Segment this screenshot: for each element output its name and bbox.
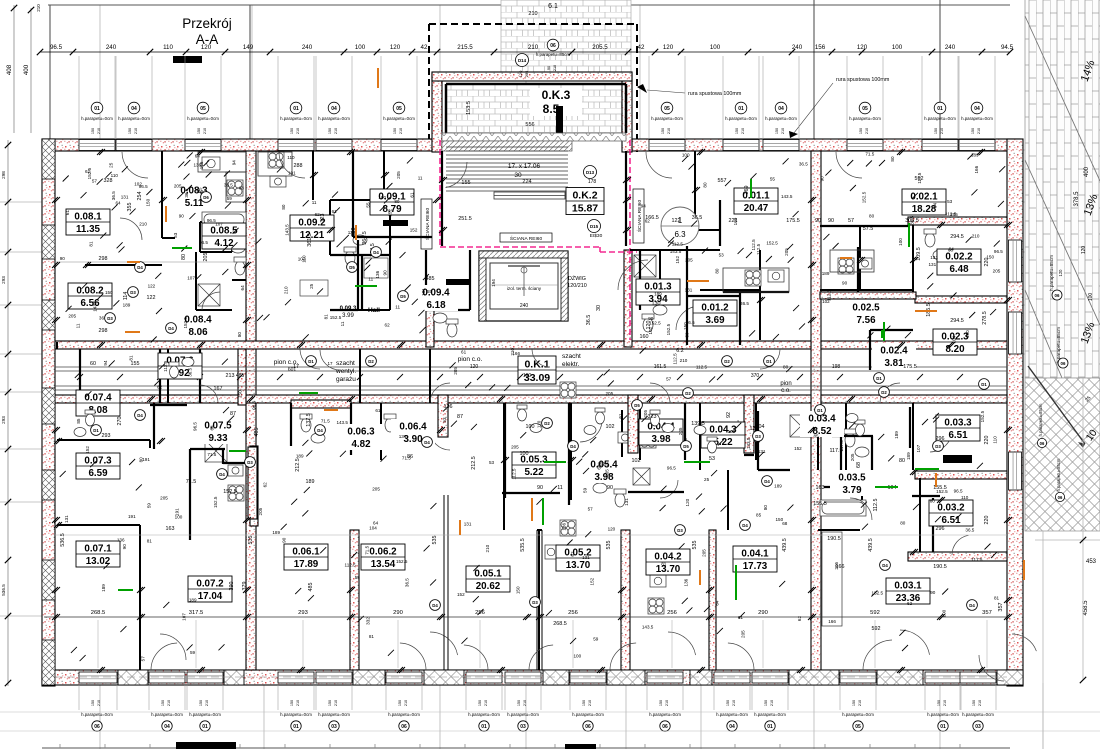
svg-text:104: 104	[756, 424, 765, 430]
svg-text:h.parapetu=0cm: h.parapetu=0cm	[280, 712, 312, 717]
corridor dim slashes	[77, 374, 963, 380]
svg-text:11: 11	[418, 176, 423, 181]
svg-text:150: 150	[105, 290, 113, 295]
svg-text:191: 191	[128, 514, 136, 519]
svg-text:120: 120	[1081, 246, 1087, 255]
svg-text:01: 01	[738, 106, 744, 112]
svg-text:122: 122	[148, 284, 156, 289]
room 0.04.1 label	[733, 546, 777, 572]
svg-text:81: 81	[89, 241, 94, 247]
svg-text:11: 11	[75, 323, 80, 328]
svg-text:D3: D3	[677, 528, 683, 533]
svg-text:120: 120	[201, 44, 212, 51]
svg-text:112.5: 112.5	[756, 243, 761, 255]
svg-text:D4: D4	[570, 444, 576, 449]
room 0.04.3 label	[701, 422, 745, 448]
svg-text:D2: D2	[881, 390, 887, 395]
svg-text:150: 150	[852, 700, 856, 706]
svg-text:485: 485	[236, 373, 245, 379]
svg-text:210: 210	[770, 700, 774, 706]
svg-text:17.73: 17.73	[743, 561, 768, 572]
left edge dimension line	[1, 140, 11, 686]
svg-text:03: 03	[331, 724, 337, 730]
svg-text:0.06.1: 0.06.1	[292, 547, 320, 558]
svg-text:535: 535	[432, 536, 438, 545]
svg-text:90: 90	[547, 66, 551, 70]
svg-text:364.5: 364.5	[362, 231, 368, 245]
extension lines below bottom wall	[79, 685, 996, 710]
small room 0.09.3	[340, 306, 380, 319]
svg-text:150: 150	[735, 128, 739, 134]
svg-text:131: 131	[121, 195, 129, 200]
svg-text:05: 05	[862, 106, 868, 112]
svg-text:81: 81	[994, 596, 1000, 601]
svg-text:D4: D4	[969, 603, 975, 608]
svg-text:04: 04	[729, 724, 735, 730]
svg-text:205: 205	[784, 248, 789, 256]
stair tower outer walls	[432, 73, 442, 152]
svg-text:136: 136	[375, 270, 380, 278]
top border line	[48, 4, 1010, 6]
room 0.08.2 label	[68, 283, 112, 309]
svg-text:D4: D4	[882, 563, 888, 568]
room 0.02.3 label	[933, 329, 977, 355]
svg-text:36.5: 36.5	[404, 578, 409, 587]
svg-text:210: 210	[865, 128, 869, 134]
rura spustowa labels	[637, 77, 890, 138]
svg-text:11.35: 11.35	[76, 224, 101, 235]
svg-text:205: 205	[160, 496, 168, 501]
room 0.01.2 label	[693, 300, 737, 326]
svg-text:D2: D2	[724, 359, 730, 364]
thin walls lower right	[622, 403, 862, 530]
svg-text:189: 189	[654, 291, 662, 296]
svg-text:D5: D5	[349, 265, 355, 270]
svg-text:136: 136	[562, 523, 567, 531]
svg-text:143.5: 143.5	[746, 437, 751, 449]
svg-text:136: 136	[684, 578, 689, 586]
svg-text:535.5: 535.5	[520, 538, 526, 552]
room 0.04.2 label	[646, 549, 690, 575]
svg-text:0.03.2: 0.03.2	[937, 503, 965, 514]
svg-text:131: 131	[582, 555, 590, 560]
svg-text:293: 293	[1, 416, 6, 424]
svg-text:189: 189	[774, 483, 782, 488]
svg-text:17. x 17.06: 17. x 17.06	[508, 163, 541, 170]
shower 0.05.4	[633, 468, 650, 485]
svg-text:71.5: 71.5	[207, 452, 216, 457]
elevator shaft	[479, 251, 568, 321]
svg-text:h.parapetu=0cm: h.parapetu=0cm	[81, 712, 113, 717]
svg-text:61: 61	[332, 209, 338, 214]
svg-text:20.47: 20.47	[744, 203, 769, 214]
svg-text:150: 150	[197, 128, 201, 134]
speckled wall 0.02 inner	[820, 292, 916, 299]
svg-text:6.59: 6.59	[88, 468, 108, 479]
svg-text:0.03.1: 0.03.1	[894, 581, 922, 592]
svg-text:11: 11	[312, 200, 317, 205]
svg-text:55: 55	[770, 177, 776, 182]
svg-text:01: 01	[94, 106, 100, 112]
svg-text:06: 06	[94, 724, 100, 730]
svg-text:D5: D5	[634, 403, 640, 408]
svg-text:pion: pion	[780, 381, 791, 387]
svg-text:80: 80	[930, 499, 936, 504]
svg-text:D14: D14	[518, 58, 527, 63]
svg-text:11: 11	[557, 485, 563, 491]
svg-text:c.o.: c.o.	[781, 388, 791, 394]
svg-text:94.5: 94.5	[1001, 44, 1014, 51]
svg-text:86: 86	[407, 454, 413, 460]
tower window circle O6	[536, 39, 571, 71]
svg-text:194: 194	[491, 279, 496, 287]
svg-text:256: 256	[667, 610, 677, 616]
svg-text:0.08.2: 0.08.2	[76, 286, 104, 297]
svg-text:120: 120	[857, 44, 868, 51]
svg-text:64: 64	[714, 600, 719, 606]
grid bubble 1	[661, 207, 699, 245]
svg-text:240: 240	[520, 303, 529, 309]
svg-text:h.parapetu=0cm: h.parapetu=0cm	[716, 712, 748, 717]
svg-text:120: 120	[1058, 269, 1063, 277]
exterior wall left	[42, 139, 55, 686]
svg-text:11: 11	[395, 305, 400, 310]
svg-text:h.parapetu=0cm: h.parapetu=0cm	[849, 116, 881, 121]
svg-text:210: 210	[943, 700, 947, 706]
svg-text:131: 131	[624, 498, 629, 506]
windows bottom wall	[79, 672, 996, 683]
svg-text:80: 80	[715, 268, 720, 274]
window type circles top row	[81, 102, 993, 134]
top dimension line	[37, 49, 1013, 55]
svg-text:152.5: 152.5	[862, 191, 867, 203]
svg-text:100: 100	[898, 238, 903, 246]
svg-text:100: 100	[710, 44, 721, 51]
svg-text:53: 53	[947, 199, 953, 204]
svg-text:17: 17	[293, 364, 299, 370]
svg-text:143.5: 143.5	[781, 194, 793, 199]
svg-text:71.5: 71.5	[865, 151, 874, 156]
svg-text:240: 240	[792, 44, 803, 51]
svg-text:h.parapetu=0cm: h.parapetu=0cm	[280, 116, 312, 121]
svg-text:149: 149	[243, 44, 254, 51]
svg-text:213: 213	[226, 373, 235, 379]
orange accent marks	[125, 68, 1024, 585]
svg-text:378.5: 378.5	[1074, 191, 1080, 207]
svg-text:D5: D5	[683, 444, 689, 449]
svg-text:189: 189	[894, 431, 899, 439]
svg-text:150: 150	[290, 128, 294, 134]
svg-text:166: 166	[974, 165, 979, 173]
corridor floor lines	[55, 367, 1007, 390]
svg-text:96.5: 96.5	[252, 400, 257, 409]
svg-text:h.parapetu=85cm: h.parapetu=85cm	[1056, 458, 1061, 491]
svg-text:04: 04	[974, 106, 980, 112]
room 0.07.6 label	[158, 353, 202, 379]
SCIANA REI60 labels	[421, 189, 644, 249]
svg-text:357: 357	[998, 602, 1004, 611]
svg-text:90: 90	[815, 218, 821, 224]
door swing arcs	[120, 152, 1036, 660]
svg-text:80: 80	[869, 213, 875, 218]
bath cluster 0.08	[196, 205, 760, 340]
svg-text:h.parapetu=0cm: h.parapetu=0cm	[187, 116, 219, 121]
svg-text:485: 485	[426, 276, 435, 282]
svg-text:53: 53	[442, 417, 447, 423]
svg-text:152: 152	[675, 256, 680, 264]
svg-text:h.parapetu=0cm: h.parapetu=0cm	[151, 712, 183, 717]
svg-text:01: 01	[940, 724, 946, 730]
svg-text:D5: D5	[400, 294, 406, 299]
svg-text:D4: D4	[137, 265, 143, 270]
svg-text:100: 100	[728, 429, 736, 434]
svg-text:485: 485	[254, 428, 260, 437]
svg-text:5.22: 5.22	[524, 467, 544, 478]
svg-text:131: 131	[930, 255, 938, 260]
svg-text:143.5: 143.5	[336, 420, 348, 425]
svg-text:143.5: 143.5	[670, 249, 682, 254]
svg-text:96.5: 96.5	[192, 422, 197, 431]
svg-text:6.1: 6.1	[548, 3, 558, 10]
svg-text:152.5: 152.5	[223, 489, 237, 495]
svg-text:rura spustowa 100mm: rura spustowa 100mm	[688, 91, 742, 97]
svg-text:150: 150	[199, 700, 203, 706]
svg-text:30: 30	[596, 305, 602, 311]
svg-text:156: 156	[815, 44, 826, 51]
svg-text:210: 210	[553, 65, 557, 71]
svg-text:293: 293	[102, 433, 111, 439]
svg-text:400: 400	[23, 64, 30, 75]
thin interior walls upper half	[57, 151, 920, 670]
svg-text:224: 224	[522, 179, 531, 185]
svg-text:0.03.3: 0.03.3	[944, 418, 972, 429]
ramp slope labels	[1049, 58, 1100, 368]
svg-text:0.K.1: 0.K.1	[524, 359, 549, 371]
svg-text:458.5: 458.5	[1083, 600, 1089, 616]
svg-text:210: 210	[972, 234, 980, 239]
svg-text:D4: D4	[137, 413, 143, 418]
svg-text:150: 150	[775, 517, 783, 522]
svg-text:h.parapetu=85cm: h.parapetu=85cm	[536, 52, 571, 57]
svg-text:3.81: 3.81	[884, 358, 904, 369]
svg-text:205: 205	[950, 212, 958, 217]
svg-text:D1: D1	[876, 376, 882, 381]
svg-text:131: 131	[758, 449, 766, 454]
svg-text:60: 60	[90, 361, 96, 367]
svg-text:400: 400	[1084, 166, 1090, 177]
svg-text:13.54: 13.54	[371, 559, 396, 570]
svg-text:94: 94	[231, 160, 236, 166]
svg-text:150: 150	[393, 128, 397, 134]
svg-text:150: 150	[661, 128, 665, 134]
svg-text:06: 06	[1061, 361, 1066, 366]
svg-text:205: 205	[678, 427, 683, 435]
room 0.K.2 label	[566, 188, 604, 215]
svg-text:210: 210	[528, 11, 537, 17]
svg-text:85: 85	[756, 513, 762, 518]
svg-text:205: 205	[702, 549, 707, 557]
svg-text:535: 535	[248, 536, 254, 545]
svg-text:59: 59	[147, 503, 152, 509]
svg-text:05: 05	[200, 106, 206, 112]
svg-text:15.87: 15.87	[572, 203, 598, 215]
plumbing double lines lower rooms	[444, 495, 542, 670]
tower hatch strip	[442, 141, 572, 151]
D13 circle	[584, 166, 597, 179]
room 0.08.4 label	[176, 312, 220, 338]
right side dims lower	[998, 378, 1100, 749]
small speckled wall pieces	[438, 395, 448, 437]
svg-text:210: 210	[940, 128, 944, 134]
svg-text:100: 100	[1088, 293, 1094, 302]
svg-text:100: 100	[520, 451, 529, 457]
svg-text:256: 256	[475, 610, 485, 616]
svg-text:96.5: 96.5	[50, 44, 63, 51]
room 0.05.3 label	[512, 452, 556, 478]
svg-text:293: 293	[1, 276, 6, 284]
svg-text:81: 81	[129, 355, 134, 361]
svg-text:90: 90	[930, 590, 936, 595]
svg-text:0.08.1: 0.08.1	[74, 212, 102, 223]
wall 0.02.2/0.02.3	[915, 296, 1007, 303]
svg-text:100: 100	[573, 653, 581, 658]
svg-text:120: 120	[685, 498, 690, 506]
svg-text:61: 61	[375, 408, 381, 413]
stair room 0.K.2 walls	[442, 151, 720, 246]
svg-text:150: 150	[91, 128, 95, 134]
svg-text:122: 122	[147, 295, 156, 301]
svg-text:01: 01	[293, 724, 299, 730]
svg-text:D3: D3	[107, 316, 113, 321]
svg-text:189: 189	[906, 452, 911, 460]
windows right wall	[1009, 240, 1022, 490]
svg-text:h.parapetu=85cm: h.parapetu=85cm	[1056, 327, 1061, 363]
upper rooms dimension texts	[60, 163, 990, 632]
svg-text:175.5: 175.5	[903, 364, 917, 370]
svg-text:361.5: 361.5	[307, 233, 313, 247]
svg-text:161.5: 161.5	[654, 364, 667, 370]
svg-text:100: 100	[378, 195, 386, 200]
room 0.02.1 label	[902, 189, 946, 215]
svg-text:136: 136	[117, 537, 125, 542]
svg-text:251.5: 251.5	[458, 216, 472, 222]
svg-text:220: 220	[984, 436, 990, 445]
extension lines above top wall	[79, 56, 995, 139]
lower rooms dimension line	[44, 610, 1012, 620]
bottom boundary lines	[0, 712, 1100, 748]
svg-text:D1: D1	[308, 359, 314, 364]
svg-text:189: 189	[101, 584, 106, 592]
svg-text:298: 298	[1, 171, 6, 179]
room 0.06.3 label	[339, 424, 383, 450]
svg-text:61: 61	[410, 192, 415, 198]
svg-text:h.parapetu=85cm: h.parapetu=85cm	[1049, 255, 1054, 291]
svg-text:42: 42	[421, 44, 428, 51]
svg-text:90: 90	[60, 256, 66, 261]
svg-text:210: 210	[334, 128, 338, 134]
svg-text:357: 357	[982, 610, 992, 616]
svg-text:131: 131	[64, 515, 69, 523]
svg-text:210: 210	[399, 128, 403, 134]
room interior extension verticals	[98, 620, 987, 668]
svg-text:150: 150	[582, 700, 586, 706]
svg-text:205: 205	[741, 630, 746, 638]
svg-text:64: 64	[240, 285, 245, 291]
svg-text:6.48: 6.48	[949, 264, 969, 275]
svg-text:D3: D3	[935, 444, 941, 449]
svg-text:189: 189	[822, 271, 830, 276]
door type circles	[91, 192, 990, 611]
svg-text:36.5: 36.5	[184, 188, 189, 197]
svg-text:120: 120	[663, 44, 674, 51]
svg-text:61: 61	[461, 349, 467, 354]
kitchen counter 0.02.1	[830, 250, 874, 272]
svg-text:150: 150	[398, 700, 402, 706]
extra bath fixtures	[74, 358, 865, 454]
kitchen counter 0.09.2	[258, 152, 292, 176]
room 0.09.1 label	[370, 189, 414, 215]
svg-text:150: 150	[764, 700, 768, 706]
svg-text:11: 11	[368, 277, 373, 282]
room 0.06.4 label	[391, 419, 435, 445]
svg-text:152.5: 152.5	[872, 591, 884, 596]
svg-text:150: 150	[91, 700, 95, 706]
svg-text:112.5: 112.5	[672, 353, 677, 365]
svg-text:150: 150	[128, 128, 132, 134]
svg-text:100: 100	[682, 153, 690, 158]
svg-text:153.5: 153.5	[466, 101, 472, 115]
svg-text:112.5: 112.5	[672, 242, 684, 247]
kitchen counter 0.01.1	[723, 268, 789, 292]
svg-text:h.parapetu=0cm: h.parapetu=0cm	[765, 116, 797, 121]
svg-text:D3: D3	[532, 600, 538, 605]
svg-text:323: 323	[320, 214, 326, 223]
svg-text:189: 189	[123, 302, 131, 307]
svg-text:36.5: 36.5	[111, 191, 116, 200]
kitchen 0.03.1 counter	[822, 532, 842, 626]
svg-text:166.5: 166.5	[645, 215, 659, 221]
svg-text:68: 68	[856, 462, 862, 468]
svg-text:163: 163	[816, 485, 825, 491]
svg-text:191: 191	[142, 457, 150, 462]
svg-text:59: 59	[227, 196, 233, 201]
svg-text:305.5: 305.5	[905, 218, 919, 224]
black bar near 0.03.3	[943, 455, 972, 463]
svg-text:102: 102	[606, 424, 615, 430]
svg-text:64: 64	[932, 203, 937, 209]
svg-text:210: 210	[134, 128, 138, 134]
svg-text:pion c.o.: pion c.o.	[458, 356, 483, 363]
svg-text:189: 189	[296, 454, 304, 459]
room 0.08.3 label	[172, 183, 216, 209]
svg-text:152: 152	[457, 592, 465, 597]
svg-text:Przekrój: Przekrój	[182, 16, 232, 31]
svg-text:210: 210	[485, 544, 490, 552]
svg-text:87: 87	[230, 411, 236, 417]
svg-text:D13: D13	[586, 170, 595, 175]
svg-text:53: 53	[173, 232, 178, 238]
svg-text:150: 150	[146, 198, 151, 206]
svg-text:D6: D6	[203, 195, 209, 200]
svg-text:0.06.3: 0.06.3	[347, 427, 375, 438]
svg-text:110: 110	[993, 436, 998, 444]
svg-text:205: 205	[68, 314, 76, 319]
svg-text:D2: D2	[368, 359, 374, 364]
svg-text:01: 01	[481, 724, 487, 730]
magenta fire wall dashed	[440, 140, 637, 340]
black bar below 0.09.1	[383, 220, 408, 226]
room 0.07.2 label	[188, 576, 232, 602]
